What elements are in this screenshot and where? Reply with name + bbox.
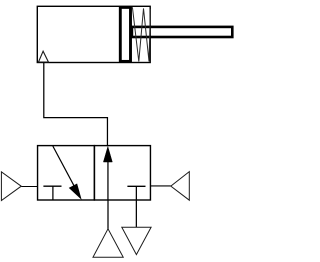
right air pilot triangle [171,172,190,201]
cylinder port arrow [39,51,49,62]
cylinder piston rod [132,27,232,37]
valve right square blocked port 3 (T symbol) [127,185,145,187]
valve left square blocked port 1 (T symbol) [43,185,61,187]
valve V1 body right square [94,146,150,200]
valve right square flow path 1 to 2 (up arrow) [107,153,109,201]
valve left square flow path 2 to 3 (diagonal arrow) [53,146,78,192]
left pilot line [21,186,37,188]
valve V1 body left square [38,146,95,200]
wire valve port 1 to source [107,200,109,229]
right pilot line [150,185,170,187]
exhaust triangle [122,227,151,254]
cylinder A1 body [37,6,150,62]
cylinder piston [120,7,130,61]
compressed air source triangle [93,229,123,257]
cylinder return spring [132,7,150,61]
left air pilot triangle [1,172,21,201]
wire valve port 3 to exhaust [135,200,137,227]
wire cylinder port to valve port 2 [44,63,108,146]
